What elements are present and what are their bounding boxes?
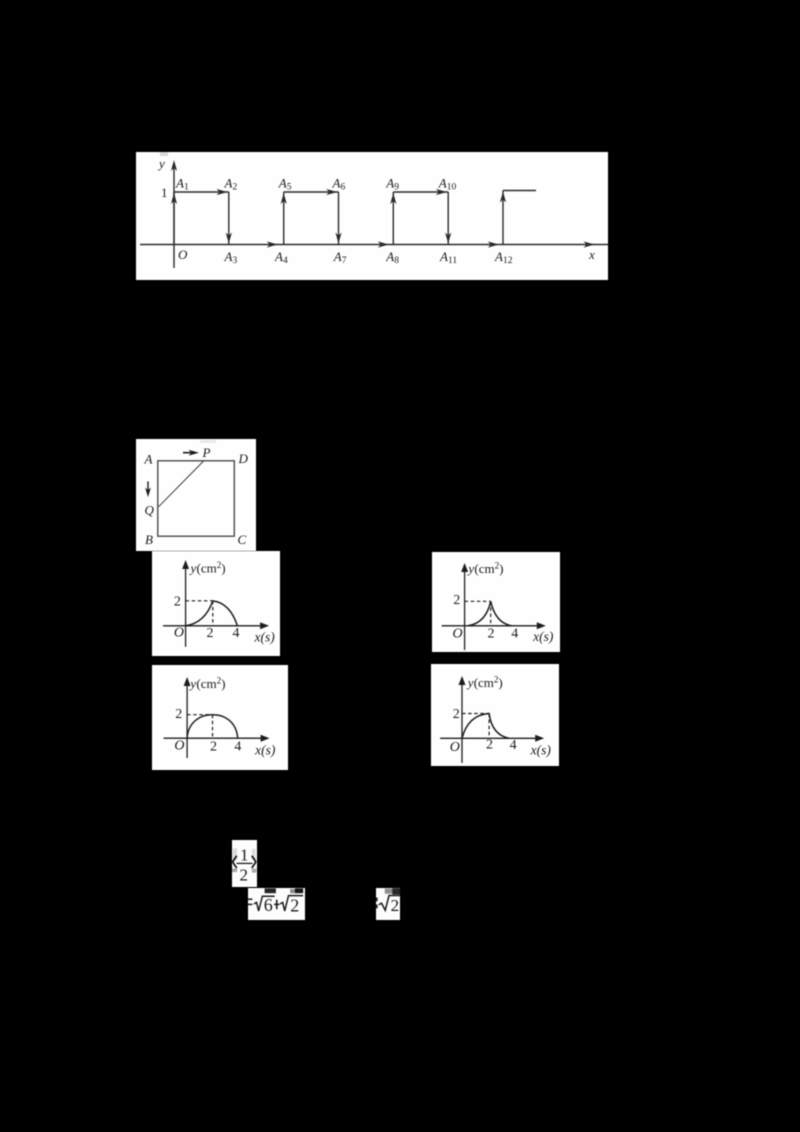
svg-text:x(s): x(s) xyxy=(254,629,276,644)
svg-text:(cm2): (cm2) xyxy=(474,675,503,691)
svg-text:1: 1 xyxy=(240,845,249,864)
svg-text:x(s): x(s) xyxy=(254,742,276,757)
svg-text:x: x xyxy=(588,247,595,262)
svg-text:O: O xyxy=(174,738,184,753)
svg-text:4: 4 xyxy=(510,738,517,753)
svg-text:D: D xyxy=(237,451,248,466)
svg-text:4: 4 xyxy=(234,739,241,754)
svg-text:2: 2 xyxy=(453,593,460,608)
svg-text:y: y xyxy=(188,676,196,691)
svg-text:Q: Q xyxy=(144,503,154,518)
svg-text:y: y xyxy=(466,675,474,690)
svg-text:2: 2 xyxy=(487,626,494,641)
svg-text:2: 2 xyxy=(390,896,399,915)
svg-text:2: 2 xyxy=(175,707,182,722)
svg-text:y: y xyxy=(157,156,165,171)
svg-text:2: 2 xyxy=(210,739,217,754)
svg-text:2: 2 xyxy=(207,626,214,641)
svg-text:(cm2): (cm2) xyxy=(196,675,225,691)
svg-text:6: 6 xyxy=(264,895,273,915)
svg-text:4: 4 xyxy=(511,626,518,641)
svg-text:4: 4 xyxy=(233,626,240,641)
svg-text:2: 2 xyxy=(290,895,299,915)
svg-text:O: O xyxy=(178,247,188,262)
svg-text:2: 2 xyxy=(486,738,493,753)
svg-text:O: O xyxy=(174,625,184,640)
svg-text:(cm2): (cm2) xyxy=(474,560,503,576)
svg-text:P: P xyxy=(201,445,210,460)
svg-text:B: B xyxy=(145,532,153,547)
svg-text:O: O xyxy=(452,626,462,641)
svg-text:C: C xyxy=(237,532,246,547)
svg-text:(cm2): (cm2) xyxy=(197,560,226,576)
svg-text:y: y xyxy=(189,560,197,575)
svg-text:2: 2 xyxy=(174,594,181,609)
svg-text:O: O xyxy=(450,740,460,755)
svg-text:A: A xyxy=(143,452,152,467)
svg-text:y: y xyxy=(466,561,474,576)
svg-text:1: 1 xyxy=(161,185,168,200)
svg-text:x(s): x(s) xyxy=(530,743,552,758)
svg-text:2: 2 xyxy=(239,865,248,884)
svg-text:x(s): x(s) xyxy=(532,629,554,644)
svg-text:2: 2 xyxy=(453,707,460,722)
